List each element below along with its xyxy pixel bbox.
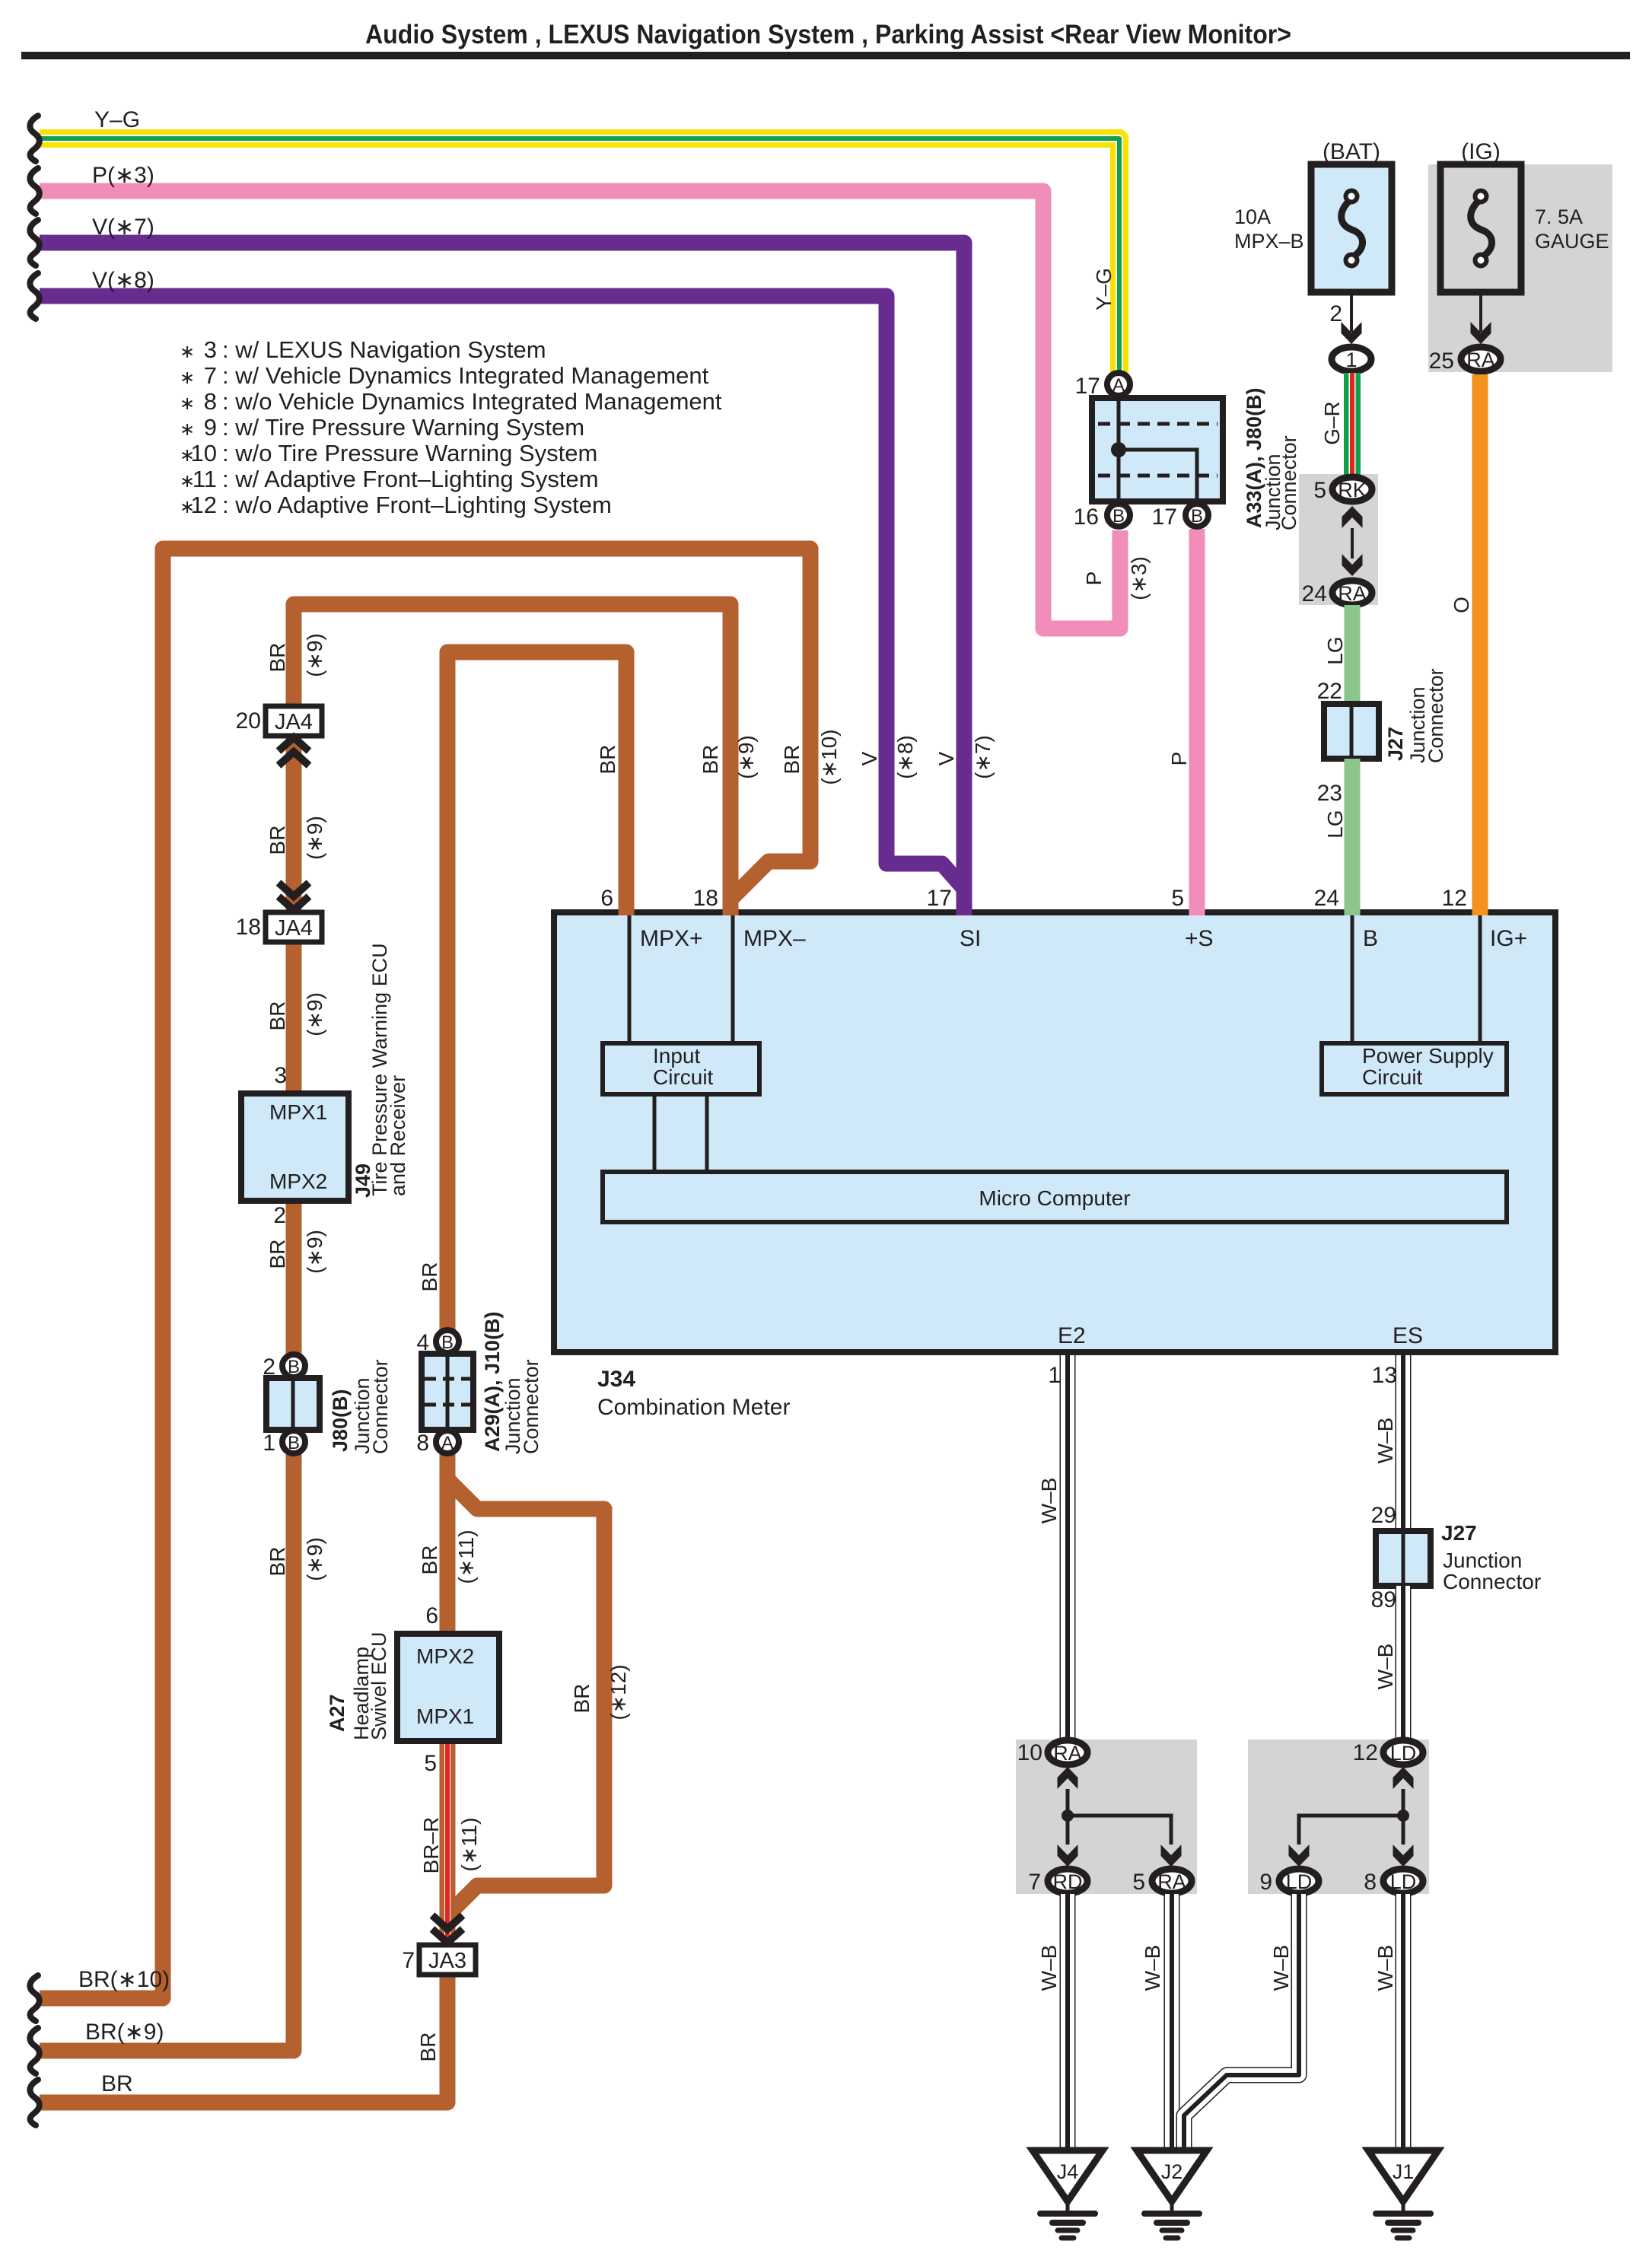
svg-text:2: 2 <box>1329 301 1342 326</box>
svg-text:P: P <box>1167 752 1191 766</box>
label Junction Connector for J80(B) <box>351 1359 392 1454</box>
label J27 Junction Connector (lower) <box>1441 1521 1541 1593</box>
svg-text:25: 25 <box>1429 349 1454 374</box>
svg-text:10: 10 <box>1017 1740 1042 1765</box>
svg-text:J34: J34 <box>597 1367 635 1392</box>
block: Input Circuit <box>603 1043 759 1094</box>
svg-text:24: 24 <box>1314 886 1339 911</box>
svg-text:: w/ Tire Pressure Warning Sys: : w/ Tire Pressure Warning System <box>222 414 584 441</box>
svg-text:A: A <box>1112 375 1125 396</box>
svg-text:7: 7 <box>402 1948 415 1973</box>
gray backdrop bottom-right relay block (LD/LD/LD) <box>1248 1740 1429 1894</box>
junction connector J27 (lower) <box>1376 1531 1431 1586</box>
wire W-B from RD 7 to ground J4 <box>1060 1894 1076 2150</box>
svg-text:BR: BR <box>418 1545 441 1575</box>
svg-text:(∗9): (∗9) <box>303 1230 326 1274</box>
wire from IG fuse to RA 25 <box>1479 292 1482 332</box>
svg-text:8: 8 <box>204 388 217 415</box>
svg-text:29: 29 <box>1371 1503 1396 1528</box>
connector JA3 pin 7 <box>419 1945 476 1975</box>
svg-text:V(∗7): V(∗7) <box>92 215 154 240</box>
svg-text:Micro Computer: Micro Computer <box>979 1186 1130 1210</box>
svg-text:11: 11 <box>193 466 217 492</box>
svg-text:(BAT): (BAT) <box>1323 139 1380 164</box>
svg-text:8: 8 <box>1364 1870 1377 1895</box>
wire BR(*10) loop: bottom-left break, up left side, across top, down to pin 18 <box>40 549 810 1998</box>
svg-text:JA4: JA4 <box>275 710 313 734</box>
svg-text:B: B <box>1363 926 1378 951</box>
svg-text:W–B: W–B <box>1373 1945 1397 1991</box>
wire V(*7) from harness break to J34 pin SI <box>40 243 964 915</box>
label Tire Pressure Warning ECU and Receiver <box>368 943 409 1196</box>
arrow down into RD 7 <box>1058 1845 1078 1867</box>
svg-text:(∗10): (∗10) <box>817 729 841 785</box>
label J34 Combination Meter <box>597 1367 790 1420</box>
svg-text:7: 7 <box>1028 1870 1041 1895</box>
pin circle B 17 <box>1186 504 1208 527</box>
svg-text:∗: ∗ <box>180 368 195 388</box>
svg-text:JA3: JA3 <box>428 1949 466 1973</box>
svg-text:JA4: JA4 <box>275 916 313 941</box>
chevron arrows above JA4 18 <box>279 883 309 896</box>
svg-text:Connector: Connector <box>1443 1570 1541 1593</box>
svg-text:23: 23 <box>1317 781 1342 806</box>
svg-text:BR: BR <box>266 643 289 673</box>
harness break brace for P(*3) <box>30 168 39 214</box>
gray backdrop bottom-left relay block (RA/RD/RA) <box>1016 1740 1197 1894</box>
svg-text:Connector: Connector <box>1278 435 1300 530</box>
arrow up into LD 12 <box>1393 1767 1414 1789</box>
svg-text:18: 18 <box>693 886 718 911</box>
svg-text:2: 2 <box>263 1354 275 1380</box>
wire BR-R(*11) from A27 pin 5 to JA3 arrow <box>440 1743 456 1940</box>
svg-text:RD: RD <box>1053 1870 1083 1893</box>
svg-text:1: 1 <box>263 1431 275 1456</box>
svg-text:W–B: W–B <box>1373 1418 1397 1464</box>
svg-text:P(∗3): P(∗3) <box>92 163 154 188</box>
connector oval LD 9 <box>1279 1869 1319 1893</box>
svg-text:LD: LD <box>1390 1742 1417 1765</box>
harness break brace for BR(*9) <box>30 2028 39 2074</box>
svg-text:BR–R: BR–R <box>419 1817 443 1874</box>
wire: internal line B pin to Power Supply Circuit <box>1351 912 1354 1043</box>
svg-text:RA: RA <box>1157 1870 1186 1893</box>
svg-text:5: 5 <box>1313 478 1326 503</box>
wire: internal line MPX- pin to Input Circuit <box>731 912 735 1043</box>
svg-text:A: A <box>441 1433 454 1453</box>
label Junction Connector for A33 <box>1262 435 1300 530</box>
label Headlamp Swivel ECU <box>350 1631 390 1740</box>
wire W-B from LD 9 jogging to ground J2 <box>1184 1894 1299 2150</box>
wire V(*8) from harness break merging into V(*7) <box>40 296 964 889</box>
wire BR(*9): bottom-left break, up through J80/J49/JA4, across, down to J34 pin 18 <box>40 604 731 2051</box>
svg-text:Circuit: Circuit <box>653 1065 714 1089</box>
svg-text:Y–G: Y–G <box>94 107 140 132</box>
wire LG from RA 24 to J27 <box>1345 605 1361 731</box>
svg-text:RA: RA <box>1053 1742 1082 1765</box>
svg-text:(∗9): (∗9) <box>303 1537 326 1581</box>
svg-text:BR: BR <box>266 1240 289 1269</box>
svg-text:9: 9 <box>1259 1870 1272 1895</box>
connector oval RA 25 <box>1461 347 1501 371</box>
harness break brace for Y-G <box>30 116 39 161</box>
wire LG from J27 to J34 pin B <box>1345 759 1361 915</box>
svg-text:3: 3 <box>204 336 217 363</box>
wire link RA10 to RD7/RA5 <box>1062 1789 1171 1845</box>
wire: internal lines Input Circuit to Micro Computer <box>654 1094 707 1172</box>
fuse 10A MPX-B (BAT) <box>1311 164 1392 292</box>
svg-text:5: 5 <box>424 1751 437 1776</box>
svg-text:17: 17 <box>927 886 952 911</box>
pin circle 2 B <box>282 1354 305 1377</box>
svg-text:: w/o Adaptive Front–Lighting: : w/o Adaptive Front–Lighting System <box>222 492 612 518</box>
legend note *3..*12 <box>180 336 722 518</box>
svg-text:MPX1: MPX1 <box>416 1705 474 1728</box>
connector oval RA 10 <box>1048 1740 1087 1765</box>
junction connector J80(B) <box>266 1378 320 1430</box>
svg-text:10: 10 <box>191 440 217 466</box>
svg-text:BR: BR <box>266 826 289 855</box>
svg-text:12: 12 <box>1353 1740 1378 1765</box>
svg-text:BR: BR <box>780 745 804 775</box>
label Junction Connector for A29 <box>501 1359 543 1454</box>
svg-text:1: 1 <box>1345 349 1357 371</box>
svg-text:(∗8): (∗8) <box>893 735 917 779</box>
svg-text:89: 89 <box>1371 1587 1396 1612</box>
svg-text:W–B: W–B <box>1141 1945 1164 1991</box>
block: Power Supply Circuit <box>1322 1043 1507 1094</box>
pin circle 8 A <box>436 1431 459 1453</box>
label Junction Connector rotated for J27 <box>1406 668 1447 763</box>
svg-text:(∗3): (∗3) <box>1127 556 1151 600</box>
connector oval 1 <box>1332 347 1371 371</box>
wire: internal line MPX+ pin to Input Circuit <box>628 912 632 1043</box>
wire W-B from E2 pin 1 to RA 10 <box>1060 1355 1076 1740</box>
double arrow between RK and RA <box>1342 506 1363 528</box>
svg-text:W–B: W–B <box>1037 1945 1061 1991</box>
svg-text:10A: 10A <box>1234 205 1271 228</box>
svg-text:MPX2: MPX2 <box>416 1644 474 1668</box>
svg-text:MPX1: MPX1 <box>269 1100 327 1124</box>
fuse 7.5A GAUGE (IG) <box>1440 164 1521 292</box>
wire BR from A29 pin 8 down to A27 pin 6 <box>440 1452 456 1638</box>
wire link LD12 to LD9/LD8 <box>1299 1789 1409 1845</box>
ground J2 <box>1137 2150 1207 2238</box>
svg-text:B: B <box>288 1433 300 1453</box>
svg-text:9: 9 <box>204 414 217 441</box>
svg-text:J2: J2 <box>1161 2160 1183 2183</box>
svg-text:Connector: Connector <box>369 1359 392 1454</box>
connector oval RA 5 <box>1152 1869 1192 1893</box>
arrow into RA 25 <box>1471 322 1491 344</box>
svg-text:J27: J27 <box>1384 727 1407 761</box>
wire W-B from J27 89 to LD 12 <box>1396 1586 1412 1740</box>
svg-text:7: 7 <box>204 362 217 389</box>
pin circle A 17 <box>1107 373 1130 396</box>
svg-text:B: B <box>1191 506 1203 527</box>
svg-text:7. 5A: 7. 5A <box>1535 205 1583 228</box>
svg-text:: w/ Vehicle Dynamics Integrat: : w/ Vehicle Dynamics Integrated Managem… <box>222 362 709 389</box>
junction connector J27 (top) <box>1324 704 1379 759</box>
harness break brace for BR <box>30 2080 39 2125</box>
wire O from RA 25 to J34 pin IG+ <box>1472 374 1488 915</box>
harness break brace for V(*7) <box>30 220 39 266</box>
connector oval LD 12 <box>1383 1740 1423 1765</box>
svg-text:A27: A27 <box>326 1694 349 1732</box>
wire from BAT fuse to connector 1 <box>1350 292 1353 332</box>
svg-text:3: 3 <box>274 1063 287 1088</box>
svg-text:13: 13 <box>1372 1363 1397 1388</box>
block: Micro Computer <box>603 1172 1507 1222</box>
svg-text:: w/ LEXUS Navigation System: : w/ LEXUS Navigation System <box>222 336 546 363</box>
svg-text:E2: E2 <box>1058 1323 1086 1348</box>
wire P from A33 pin B 17 to J34 pin +S <box>1189 529 1205 915</box>
junction connector A29(A), J10(B) <box>422 1354 473 1430</box>
svg-text:(IG): (IG) <box>1461 139 1501 164</box>
svg-text:O: O <box>1450 597 1473 613</box>
svg-text:BR: BR <box>699 745 722 775</box>
svg-text:MPX2: MPX2 <box>269 1170 327 1193</box>
svg-text:V: V <box>858 751 881 766</box>
svg-text:GAUGE: GAUGE <box>1535 230 1609 253</box>
svg-text:(∗7): (∗7) <box>971 735 995 779</box>
harness break brace for BR(*10) <box>30 1975 39 2021</box>
svg-text:BR: BR <box>266 1547 289 1577</box>
svg-text:8: 8 <box>416 1431 429 1456</box>
wire: internal line IG+ pin to Power Supply Circuit <box>1479 912 1482 1043</box>
svg-text:LD: LD <box>1286 1870 1313 1893</box>
svg-text:LD: LD <box>1390 1870 1417 1893</box>
svg-text:B: B <box>288 1357 300 1377</box>
arrow down into LD 9 <box>1289 1845 1310 1867</box>
svg-text:W–B: W–B <box>1037 1478 1061 1524</box>
svg-text:17: 17 <box>1075 374 1100 399</box>
svg-text:12: 12 <box>1442 886 1467 911</box>
svg-text:A29(A), J10(B): A29(A), J10(B) <box>481 1311 504 1452</box>
svg-text:5: 5 <box>1171 886 1184 911</box>
fuse element symbol (IG) <box>1471 191 1492 266</box>
svg-text:: w/o Vehicle Dynamics Integra: : w/o Vehicle Dynamics Integrated Manage… <box>222 388 722 415</box>
label 7. 5A GAUGE <box>1535 205 1609 253</box>
wire P(*3) from harness break to A33 pin B 16 <box>40 191 1120 629</box>
svg-text:RA: RA <box>1338 582 1367 605</box>
svg-text:B: B <box>441 1332 454 1353</box>
svg-text:BR(∗9): BR(∗9) <box>85 2020 164 2045</box>
svg-text:LG: LG <box>1323 636 1347 664</box>
svg-text:Input: Input <box>653 1044 700 1068</box>
svg-text:IG+: IG+ <box>1490 926 1527 951</box>
svg-text:BR: BR <box>101 2071 133 2096</box>
svg-text:4: 4 <box>416 1330 429 1355</box>
harness break brace for V(*8) <box>30 273 39 319</box>
svg-text:Junction: Junction <box>1443 1549 1522 1572</box>
svg-text:V: V <box>934 751 958 766</box>
svg-text:J4: J4 <box>1057 2160 1079 2183</box>
wire BR from JA3 down to bottom-left harness break <box>40 1975 447 2102</box>
arrow up into RA 10 <box>1058 1767 1078 1789</box>
wire W-B from LD 8 to ground J1 <box>1396 1894 1412 2150</box>
svg-text:MPX+: MPX+ <box>640 926 703 951</box>
svg-text:16: 16 <box>1074 505 1099 530</box>
svg-text:SI: SI <box>960 926 981 951</box>
svg-text:Connector: Connector <box>1424 668 1447 763</box>
connector JA4 pin 20 <box>266 706 322 736</box>
svg-text:22: 22 <box>1317 679 1342 704</box>
svg-text:12: 12 <box>191 492 217 518</box>
wire BR(*12) bypass from A29-8 wire around A27 to JA3 <box>449 1481 604 1912</box>
svg-text:G–R: G–R <box>1320 401 1344 445</box>
svg-text:Circuit: Circuit <box>1362 1065 1423 1089</box>
svg-text:(∗9): (∗9) <box>303 992 326 1036</box>
svg-text:Power Supply: Power Supply <box>1362 1044 1494 1068</box>
svg-text:(∗9): (∗9) <box>303 633 326 677</box>
svg-text:BR(∗10): BR(∗10) <box>78 1967 170 1992</box>
svg-text:LG: LG <box>1323 810 1347 838</box>
svg-text:(∗11): (∗11) <box>457 1817 481 1871</box>
connector oval RA 24 <box>1332 581 1372 605</box>
wire BR from A29 pin 4 up and across to J34 pin 6 MPX+ <box>447 652 626 1332</box>
svg-text:B: B <box>1112 506 1125 527</box>
arrow into connector 1 <box>1342 322 1362 344</box>
svg-text:MPX–B: MPX–B <box>1234 230 1304 253</box>
svg-text:Audio System , LEXUS Navigatio: Audio System , LEXUS Navigation System ,… <box>365 20 1291 49</box>
svg-text:5: 5 <box>1132 1870 1145 1895</box>
svg-text:Swivel ECU: Swivel ECU <box>368 1631 390 1740</box>
ECU box J49 MPX1/MPX2 <box>241 1093 349 1201</box>
title underline bar <box>21 52 1630 59</box>
svg-text:18: 18 <box>236 915 261 940</box>
arrow down into LD 8 <box>1393 1845 1414 1867</box>
svg-text:BR: BR <box>418 1262 441 1292</box>
pin circle B 16 <box>1107 504 1130 527</box>
wire W-B from RA 5 to ground J2 <box>1164 1894 1180 2150</box>
label 10A MPX-B <box>1234 205 1304 253</box>
svg-text:: w/ Adaptive Front–Lighting S: : w/ Adaptive Front–Lighting System <box>222 466 599 492</box>
gray backdrop behind RK(5)/RA(24) connector pair <box>1299 474 1378 605</box>
svg-text:BR: BR <box>596 745 619 775</box>
svg-text:MPX–: MPX– <box>743 926 806 951</box>
svg-text:1: 1 <box>1048 1363 1061 1388</box>
svg-text:∗: ∗ <box>180 393 195 414</box>
svg-text:RK: RK <box>1338 479 1367 501</box>
svg-text:: w/o Tire Pressure Warning Sy: : w/o Tire Pressure Warning System <box>222 440 597 466</box>
connector oval RD 7 <box>1048 1869 1087 1893</box>
pin labels inside J34 <box>640 926 1527 1348</box>
ECU box J34 Combination Meter <box>554 912 1555 1352</box>
arrow down into RA 5 <box>1161 1845 1182 1867</box>
svg-text:W–B: W–B <box>1373 1644 1397 1690</box>
fuse element symbol (BAT) <box>1342 191 1363 266</box>
wire G-R from connector 1 to RK <box>1344 373 1361 477</box>
connector JA4 pin 18 <box>266 912 322 942</box>
chevron arrows below JA4 20 <box>279 737 309 751</box>
svg-text:2: 2 <box>273 1203 286 1228</box>
svg-text:(∗12): (∗12) <box>606 1664 630 1720</box>
connector oval RK 5 <box>1332 477 1372 501</box>
svg-text:J27: J27 <box>1441 1521 1477 1545</box>
wire Y-G from harness break to A33 pin A <box>40 138 1119 380</box>
svg-text:Combination Meter: Combination Meter <box>597 1395 790 1420</box>
svg-text:+S: +S <box>1185 926 1214 951</box>
svg-text:20: 20 <box>236 708 261 734</box>
svg-text:(∗11): (∗11) <box>454 1529 478 1584</box>
svg-text:W–B: W–B <box>1269 1945 1293 1991</box>
svg-text:24: 24 <box>1302 581 1327 606</box>
svg-text:∗: ∗ <box>180 419 195 440</box>
gray backdrop behind (IG) fuse and RA(25) <box>1428 164 1612 372</box>
svg-text:J80(B): J80(B) <box>329 1389 352 1452</box>
ground J1 <box>1368 2150 1438 2238</box>
svg-text:(∗9): (∗9) <box>734 735 758 779</box>
svg-text:and Receiver: and Receiver <box>387 1075 409 1196</box>
svg-text:BR: BR <box>570 1684 594 1714</box>
pin circle 4 B <box>436 1330 459 1353</box>
svg-text:6: 6 <box>600 886 613 911</box>
svg-text:17: 17 <box>1152 505 1177 530</box>
chevron arrows above JA3 <box>432 1915 463 1929</box>
svg-text:P: P <box>1082 571 1106 586</box>
svg-text:ES: ES <box>1393 1323 1423 1348</box>
svg-text:Y–G: Y–G <box>1092 268 1116 310</box>
svg-text:∗: ∗ <box>180 342 195 362</box>
ECU box A27 MPX2/MPX1 <box>397 1634 499 1741</box>
pin circle 1 B <box>282 1431 305 1453</box>
ground J4 <box>1033 2150 1103 2238</box>
svg-text:RA: RA <box>1466 349 1495 371</box>
svg-text:6: 6 <box>425 1603 438 1628</box>
svg-text:J1: J1 <box>1393 2160 1415 2183</box>
svg-text:BR: BR <box>266 1001 289 1031</box>
connector oval LD 8 <box>1383 1869 1423 1893</box>
svg-text:BR: BR <box>416 2032 440 2062</box>
wire W-B from ES pin 13 to J27 29 <box>1396 1355 1412 1533</box>
junction connector A33(A), J80(B) <box>1092 398 1223 501</box>
svg-text:(∗9): (∗9) <box>303 816 326 860</box>
svg-text:V(∗8): V(∗8) <box>92 268 154 293</box>
svg-text:Connector: Connector <box>520 1359 543 1454</box>
